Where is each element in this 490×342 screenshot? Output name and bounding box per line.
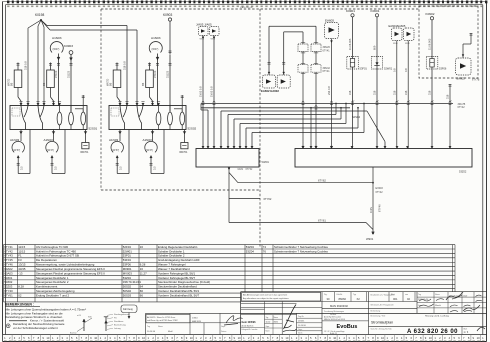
fuse box B6 left [6, 63, 21, 106]
svg-text:2: 2 [152, 336, 154, 340]
svg-text:9: 9 [90, 336, 92, 340]
svg-text:Steckdose: Steckdose [114, 320, 124, 323]
dashed enclosure main [101, 9, 419, 247]
svg-text:52S01: 52S01 [89, 127, 98, 131]
svg-text:Heizung und d. Lueftung: Heizung und d. Lueftung [425, 315, 450, 318]
svg-text:Vorderer Fahrspiegel BL 56/1: Vorderer Fahrspiegel BL 56/1 [158, 271, 195, 275]
svg-text:4: 4 [257, 336, 259, 340]
svg-text:8: 8 [181, 336, 183, 340]
svg-text:6TY40: 6TY40 [377, 204, 381, 212]
svg-text:038.70-311/31: 038.70-311/31 [123, 280, 142, 284]
svg-text:Steuergeraet Deckbahn 1: Steuergeraet Deckbahn 1 [36, 276, 69, 280]
pin exit module 53Z01 [228, 167, 253, 173]
wire J/A05 left drop [199, 36, 205, 149]
svg-text:9: 9 [138, 336, 140, 340]
svg-text:6TY61: 6TY61 [318, 218, 326, 222]
svg-text:Name: Name [435, 294, 440, 296]
svg-text:Ztg.: Ztg. [324, 293, 328, 296]
svg-text:Slavik: Slavik [435, 305, 442, 307]
svg-text:6: 6 [171, 336, 173, 340]
svg-text:3: 3 [444, 336, 446, 340]
svg-text:6TY45: 6TY45 [4, 258, 13, 262]
svg-text:Kombiinstrument: Kombiinstrument [36, 285, 58, 289]
svg-text:1: 1 [52, 336, 54, 340]
legend symbol pin arrow [70, 315, 92, 334]
wire K0601 drop [373, 17, 379, 149]
svg-text:16: 16 [140, 267, 144, 271]
svg-text:3: 3 [348, 336, 350, 340]
svg-text:53F04: 53F04 [123, 258, 131, 262]
svg-text:a.09: a.09 [77, 315, 82, 317]
svg-text:6TY7B: 6TY7B [472, 79, 480, 82]
svg-text:Tag: Tag [418, 294, 421, 296]
svg-text:316: 316 [428, 90, 432, 95]
svg-text:(W.57): (W.57) [112, 149, 119, 152]
top ruler numbers [7, 6, 482, 8]
svg-text:11.06.005: 11.06.005 [348, 38, 352, 50]
svg-text:53Z02: 53Z02 [4, 280, 12, 284]
svg-text:W0701: W0701 [80, 150, 89, 154]
legend table entries right [246, 245, 328, 253]
svg-text:4: 4 [162, 336, 164, 340]
svg-text:6: 6 [315, 336, 317, 340]
signature small middle [224, 316, 243, 325]
terminal K0601 [371, 9, 380, 17]
svg-text:6TY46: 6TY46 [4, 263, 13, 267]
svg-text:6TY42: 6TY42 [458, 106, 466, 109]
svg-text:Blatt: Blatt [464, 327, 468, 330]
svg-text:MV003: MV003 [123, 271, 132, 275]
svg-text:a: a [398, 100, 400, 102]
svg-text:Schalter Deckbahn 1: Schalter Deckbahn 1 [158, 249, 185, 253]
svg-text:02: 02 [18, 293, 22, 297]
svg-text:W09: W09 [405, 43, 410, 45]
svg-text:Name: Name [158, 326, 163, 328]
pins bottom of 52S01 [19, 131, 87, 133]
fuse 53F06 [426, 57, 447, 71]
svg-text:MAN 3620: MAN 3620 [192, 320, 201, 323]
fuse box B6 left [105, 63, 120, 106]
relay A1N03 coil arc [149, 36, 162, 106]
svg-text:53F01: 53F01 [123, 254, 131, 258]
terminal K0903 [163, 13, 172, 21]
connector pair EA603 EA605 [389, 24, 415, 45]
legend vehicle balloon [121, 305, 137, 319]
wire EA602 pin marks [268, 63, 286, 75]
svg-text:6TY62: 6TY62 [264, 197, 272, 201]
svg-text:31123: 31123 [67, 70, 71, 78]
svg-text:Steuergeraet Flexibel programm: Steuergeraet Flexibel programmierte Steu… [36, 271, 105, 275]
svg-text:2: 2 [105, 336, 107, 340]
fuse box B6 right [141, 63, 153, 106]
wire bus1 into module left [201, 104, 208, 149]
svg-text:W07D: W07D [6, 79, 10, 86]
svg-text:316: 316 [404, 90, 408, 95]
svg-text:1: 1 [434, 336, 436, 340]
svg-text:(W07): (W07) [53, 48, 60, 51]
svg-text:EA602 EA602: EA602 EA602 [261, 89, 279, 93]
svg-text:Steuergeraet Zeichenregelung: Steuergeraet Zeichenregelung [36, 289, 75, 293]
svg-text:3: 3 [14, 336, 16, 340]
approval cells left [241, 302, 297, 335]
pins top of 52S01 [19, 102, 61, 106]
svg-text:113N: 113N [369, 207, 373, 213]
svg-text:316: 316 [348, 90, 352, 95]
svg-text:50S02: 50S02 [123, 289, 132, 293]
svg-text:7: 7 [415, 336, 417, 340]
svg-text:EvoBus: EvoBus [337, 324, 358, 330]
svg-text:9: 9 [329, 336, 331, 340]
svg-text:Werknorm-Nr / Freigabe-Nr: Werknorm-Nr / Freigabe-Nr [371, 304, 394, 307]
svg-text:6TY41: 6TY41 [323, 70, 331, 73]
svg-text:4: 4 [353, 336, 355, 340]
svg-text:8: 8 [133, 336, 135, 340]
svg-text:7: 7 [81, 336, 83, 340]
svg-text:6A09: 6A09 [238, 168, 244, 171]
svg-text:Sach-Nr / Zchngs-Nr (Teil): Sach-Nr / Zchngs-Nr (Teil) [371, 328, 392, 330]
svg-text:1 / 3: 1 / 3 [464, 331, 469, 334]
svg-text:5: 5 [23, 336, 25, 340]
svg-text:A1N03: A1N03 [52, 36, 62, 40]
svg-text:Zuordnung Motorwagen: Zuordnung Motorwagen [324, 310, 344, 313]
svg-text:2: 2 [391, 336, 393, 340]
svg-text:MAN-Nr 36203-02 alt 36203: MAN-Nr 36203-02 alt 36203 [324, 318, 345, 321]
connector pair J/A05 [196, 23, 219, 41]
svg-text:5: 5 [406, 336, 408, 340]
svg-text:3rd floor: 3rd floor [330, 313, 337, 316]
svg-text:W07D: W07D [105, 79, 109, 86]
svg-text:1: 1 [4, 336, 6, 340]
svg-text:6.28: 6.28 [140, 263, 146, 267]
svg-text:86060: 86060 [339, 297, 347, 301]
svg-text:6TY42: 6TY42 [4, 249, 13, 253]
department cells [146, 313, 241, 334]
remarks block [5, 302, 86, 330]
svg-text:4: 4 [210, 336, 212, 340]
svg-text:9: 9 [42, 336, 44, 340]
svg-text:02: 02 [407, 297, 410, 301]
wire 6TY62 spur [229, 173, 272, 223]
fuse box B6 right [42, 63, 54, 106]
svg-text:8.28: 8.28 [18, 285, 24, 289]
svg-text:Wasser 7 Deckbahnfland: Wasser 7 Deckbahnfland [158, 267, 190, 271]
svg-text:10.10.96: 10.10.96 [298, 325, 307, 327]
svg-text:11/15: 11/15 [18, 249, 25, 253]
svg-text:3.5: 3.5 [152, 166, 156, 170]
wire supply rail lower [50, 30, 137, 106]
svg-text:7: 7 [33, 336, 35, 340]
svg-text:Typ: Typ [353, 294, 356, 296]
svg-text:2: 2 [439, 336, 441, 340]
dashed enclosure right option box [419, 6, 478, 78]
svg-text:Kdt-Nr.: Kdt-Nr. [337, 293, 343, 296]
svg-text:10: 10 [190, 336, 193, 340]
bus pin labels [353, 100, 453, 102]
svg-text:10: 10 [285, 336, 288, 340]
svg-text:Norm: Norm [266, 329, 271, 332]
svg-text:6: 6 [28, 336, 30, 340]
svg-text:53Z04: 53Z04 [123, 276, 131, 280]
svg-text:4: 4 [66, 336, 68, 340]
svg-text:3: 3 [301, 336, 303, 340]
svg-text:53Z03: 53Z03 [4, 285, 12, 289]
lamp unit A1N03 right [143, 130, 165, 174]
svg-text:5: 5 [453, 336, 455, 340]
wire K0902 drop [428, 20, 434, 149]
svg-text:6: 6 [124, 336, 126, 340]
svg-text:6TY41: 6TY41 [4, 245, 13, 249]
svg-text:EA605: EA605 [457, 77, 466, 81]
relay A1N03 coil arc [50, 36, 63, 106]
svg-text:Norm: Norm [298, 333, 303, 335]
svg-text:8: 8 [38, 336, 40, 340]
svg-text:1: 1 [243, 336, 245, 340]
svg-text:Gem 10/5/96: Gem 10/5/96 [242, 321, 257, 324]
ground drop from module 53Z02 [369, 167, 384, 232]
svg-text:Mehl: Mehl [274, 322, 279, 324]
svg-text:M0901: M0901 [123, 267, 132, 271]
svg-text:1: 1 [339, 336, 341, 340]
svg-text:9: 9 [473, 336, 475, 340]
svg-text:6TY62: 6TY62 [246, 169, 253, 171]
svg-text:609: 609 [373, 45, 377, 50]
svg-text:8: 8 [277, 336, 279, 340]
svg-text:3: 3 [396, 336, 398, 340]
svg-text:Erdung Deckbahn 7 und 2: Erdung Deckbahn 7 und 2 [36, 293, 69, 297]
svg-text:Datum: Datum [221, 330, 227, 333]
svg-text:11.06.005: 11.06.005 [428, 38, 432, 50]
svg-text:1: 1 [195, 336, 197, 340]
svg-text:5: 5 [214, 336, 216, 340]
svg-text:316: 316 [373, 90, 377, 95]
svg-text:Fahrgest-Nr / von-bis: Fahrgest-Nr / von-bis [242, 328, 258, 331]
svg-text:Aufzeit im Fahrzeugbus TC 460: Aufzeit im Fahrzeugbus TC 460 [36, 249, 76, 253]
svg-text:F3: F3 [18, 258, 22, 262]
svg-text:10: 10 [333, 336, 336, 340]
svg-text:3: 3 [109, 336, 111, 340]
svg-text:6: 6 [363, 336, 365, 340]
svg-text:Aend Wg 36/8 Laufzeit: Aend Wg 36/8 Laufzeit [324, 316, 342, 319]
svg-text:8: 8 [468, 336, 470, 340]
svg-text:5: 5 [358, 336, 360, 340]
svg-text:5: 5 [71, 336, 73, 340]
svg-text:6TY62: 6TY62 [318, 179, 326, 183]
wire J/A05 right drop [210, 36, 216, 149]
svg-text:13/64: 13/64 [192, 317, 198, 319]
svg-text:Stift: Stift [88, 315, 92, 318]
module 53Z02 [295, 149, 472, 174]
drawing title [371, 315, 450, 325]
svg-text:Gepr.: Gepr. [221, 326, 226, 328]
svg-text:13/15: 13/15 [18, 263, 26, 267]
wire 6TY62 upper [229, 173, 374, 184]
lamp unit A1N03 right [44, 130, 66, 174]
bus line 2 [201, 107, 350, 109]
svg-text:6: 6 [267, 336, 269, 340]
revision grid [417, 292, 487, 314]
svg-text:53Z02: 53Z02 [459, 170, 467, 174]
svg-text:6TY40: 6TY40 [4, 289, 13, 293]
svg-text:Wasser 7 Fahrspiegel: Wasser 7 Fahrspiegel [158, 263, 186, 267]
svg-text:Schalter Deckbahn 2: Schalter Deckbahn 2 [158, 254, 185, 258]
pins top of 52S02 [118, 102, 160, 106]
svg-text:60A03: 60A03 [4, 271, 13, 275]
svg-text:Tag: Tag [147, 326, 150, 328]
svg-text:10.10: 10.10 [266, 322, 271, 324]
svg-text:316 0.8: 316 0.8 [24, 61, 28, 70]
svg-text:3.5: 3.5 [119, 166, 123, 170]
svg-text:7: 7 [224, 336, 226, 340]
fuse 53F01 [347, 57, 368, 71]
svg-text:13/251: 13/251 [298, 321, 305, 323]
svg-text:53F06: 53F06 [439, 67, 447, 71]
left circuit group 1 [6, 13, 97, 173]
svg-text:Vorderer Fahrspiegel BL 56/7: Vorderer Fahrspiegel BL 56/7 [158, 276, 195, 280]
svg-text:9: 9 [377, 336, 379, 340]
svg-text:Buchse: Buchse [70, 332, 78, 334]
svg-text:6: 6 [458, 336, 460, 340]
svg-text:K0903: K0903 [64, 44, 73, 48]
connector EA605 in option box [456, 58, 472, 81]
svg-text:8: 8 [420, 336, 422, 340]
signature scribbles [446, 292, 485, 331]
svg-text:52W01: 52W01 [123, 249, 132, 253]
wire K0903 drop [169, 21, 172, 54]
wire EA602 left bracket [269, 26, 316, 75]
svg-text:53Z04: 53Z04 [246, 245, 254, 249]
svg-text:Erdung Regenerator Deckbahn: Erdung Regenerator Deckbahn [158, 245, 198, 249]
svg-text:EX003: EX003 [376, 187, 384, 190]
wire EA602 right bracket [284, 32, 303, 75]
note box [242, 292, 321, 301]
legend table entries middle [123, 245, 210, 298]
svg-text:Aufzeit im Fahrzeugbus D 677 S: Aufzeit im Fahrzeugbus D 677 SB [36, 254, 79, 258]
svg-text:10: 10 [381, 336, 384, 340]
svg-text:Name: Name [274, 317, 279, 319]
svg-text:53F01: 53F01 [360, 67, 368, 71]
svg-text:7: 7 [128, 336, 130, 340]
svg-text:7: 7 [320, 336, 322, 340]
svg-text:Schwimmerbinder 7 Netzwerkung: Schwimmerbinder 7 Netzwerkung Cochlea [274, 249, 328, 253]
svg-text:8: 8 [372, 336, 374, 340]
svg-text:Massenregelung, sowie Lichtsch: Massenregelung, sowie Lichtschalterbeleg… [36, 263, 95, 267]
svg-text:60A02: 60A02 [4, 267, 13, 271]
svg-text:Aend 36225 b: Aend 36225 b [242, 325, 254, 328]
svg-text:Bubb 13: Bubb 13 [330, 333, 337, 335]
svg-text:11.27: 11.27 [140, 271, 147, 275]
svg-text:a: a [409, 100, 411, 102]
svg-text:10: 10 [94, 336, 97, 340]
svg-text:316: 316 [446, 94, 450, 99]
svg-text:4: 4 [401, 336, 403, 340]
svg-text:76: 76 [263, 249, 267, 253]
svg-text:a: a [353, 100, 355, 102]
wire K0901 drop [348, 17, 354, 149]
terminal K0903 pilot [64, 44, 73, 111]
connector W07D1 [80, 130, 89, 154]
wire K0902 branch [446, 84, 452, 149]
svg-text:Die Reparaturen: Die Reparaturen [36, 258, 57, 262]
lamp unit A1N03 left [10, 130, 30, 174]
svg-text:11/15: 11/15 [18, 245, 25, 249]
svg-text:Steckergehaeuse: Steckergehaeuse [114, 313, 130, 316]
svg-text:K0903: K0903 [163, 13, 172, 17]
svg-text:Schwimmerbinder 7 Netzwerkung: Schwimmerbinder 7 Netzwerkung Cochlea [274, 245, 328, 249]
svg-text:Ab KEV12 i. Wann-Co. 677KD Kno: Ab KEV12 i. Wann-Co. 677KD Knorr [147, 316, 176, 319]
drawing number [371, 326, 469, 335]
svg-text:W03: W03 [393, 43, 398, 45]
left circuit group 2 [105, 13, 196, 173]
svg-text:8: 8 [229, 336, 231, 340]
svg-text:316 0.8: 316 0.8 [123, 61, 127, 70]
svg-text:(W.57): (W.57) [47, 149, 54, 152]
svg-text:B6: B6 [141, 82, 145, 86]
svg-text:3.5: 3.5 [53, 166, 57, 170]
svg-text:64: 64 [140, 285, 144, 289]
module 53Z01 [196, 149, 269, 168]
svg-text:(W.57): (W.57) [146, 149, 153, 152]
relay block 52S01 [10, 106, 98, 131]
svg-text:EA603/EA605: EA603/EA605 [389, 24, 406, 28]
svg-text:43/45: 43/45 [18, 267, 26, 271]
svg-text:W0701: W0701 [179, 150, 188, 154]
svg-text:316: 316 [392, 90, 396, 95]
svg-text:6TY41: 6TY41 [323, 49, 331, 52]
pins top of module 53Z01 [202, 146, 253, 148]
svg-text:Chef: Chef [463, 295, 468, 297]
svg-text:K0902: K0902 [426, 12, 435, 16]
svg-text:9: 9 [234, 336, 236, 340]
svg-text:(W07): (W07) [152, 48, 159, 51]
svg-text:Pin: Pin [114, 317, 117, 319]
svg-text:9: 9 [281, 336, 283, 340]
svg-text:53Z01: 53Z01 [262, 160, 270, 164]
svg-text:K0901: K0901 [346, 9, 355, 13]
ground W901 [366, 232, 374, 241]
svg-text:8: 8 [85, 336, 87, 340]
terminal K0902 [426, 12, 435, 20]
svg-text:B6: B6 [42, 82, 46, 86]
svg-text:2: 2 [200, 336, 202, 340]
svg-text:a: a [451, 100, 453, 102]
svg-text:6: 6 [410, 336, 412, 340]
bus line 1 [201, 103, 466, 109]
svg-text:52S04: 52S04 [352, 115, 361, 119]
svg-text:31123: 31123 [166, 70, 170, 78]
svg-text:Any alterations are subject to: Any alterations are subject to the expor… [243, 297, 289, 300]
title block frame [146, 292, 487, 335]
svg-text:Fahrzeug: Fahrzeug [123, 308, 133, 311]
wire inline right [315, 52, 318, 149]
bottom ruler [3, 335, 487, 342]
svg-text:Bezeichnung: Bezeichnung [114, 324, 126, 326]
svg-text:4: 4 [18, 336, 20, 340]
pins bottom of 52S02 [118, 131, 186, 133]
svg-text:52W01: 52W01 [384, 67, 393, 71]
svg-text:Steuergeraet Deckbahn 2: Steuergeraet Deckbahn 2 [36, 280, 69, 284]
svg-text:10: 10 [238, 336, 241, 340]
svg-text:10: 10 [46, 336, 49, 340]
svg-text:50S03: 50S03 [123, 293, 132, 297]
wire stub contact [181, 95, 184, 111]
svg-text:0.8: 0.8 [392, 68, 396, 72]
svg-text:Steckverbinder Deckbahnfland: Steckverbinder Deckbahnfland [158, 285, 197, 289]
svg-text:66: 66 [140, 289, 144, 293]
relay block 52S02 [109, 106, 197, 131]
svg-text:3: 3 [62, 336, 64, 340]
svg-text:Grab-Erdagelung Deckbahn ADF: Grab-Erdagelung Deckbahn ADF [158, 258, 200, 262]
svg-text:1N05 0.8: 1N05 0.8 [210, 86, 214, 97]
